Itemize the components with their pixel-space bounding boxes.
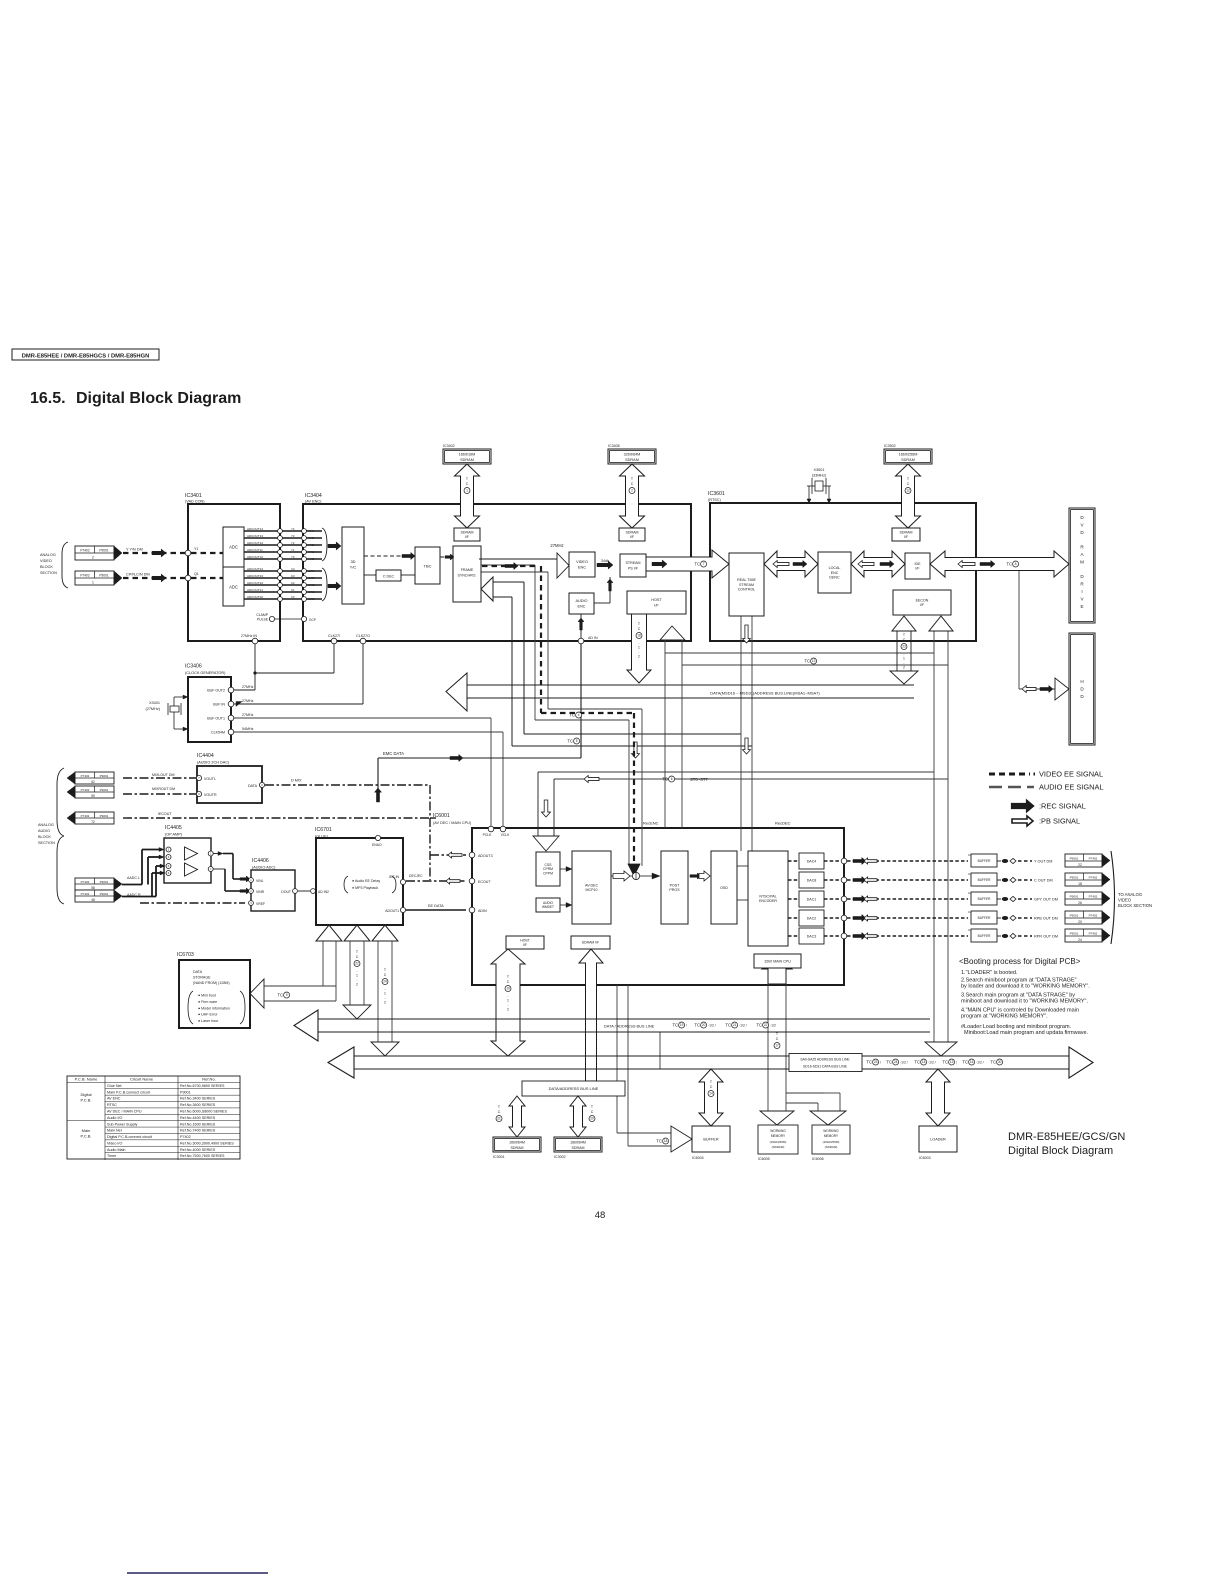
svg-text:18: 18 (1078, 882, 1082, 886)
svg-text:27MHz: 27MHz (242, 713, 254, 717)
svg-text:Y0: Y0 (291, 555, 295, 559)
svg-text:CPPM: CPPM (543, 872, 553, 876)
svg-text:ADCOUT24: ADCOUT24 (247, 567, 263, 571)
svg-text:C: C (710, 1085, 713, 1089)
svg-text:48: 48 (91, 898, 95, 902)
svg-text:DAC1: DAC1 (807, 897, 817, 901)
svg-text:IEC IN: IEC IN (389, 875, 400, 879)
svg-text:SYNCHRO.: SYNCHRO. (458, 574, 477, 578)
svg-text:GPY OUT DM: GPY OUT DM (1034, 897, 1058, 901)
svg-text:P7402: P7402 (81, 892, 90, 896)
svg-text:C: C (903, 638, 906, 642)
svg-text:OSD: OSD (720, 886, 728, 890)
svg-text:Q1: Q1 (194, 572, 199, 576)
svg-text:20: 20 (590, 1117, 594, 1121)
svg-text:FRAME: FRAME (461, 568, 474, 572)
svg-text:(SDRAM): (SDRAM) (825, 1145, 838, 1149)
svg-text:C/N1: C/N1 (308, 590, 315, 594)
svg-text:P9001: P9001 (180, 1090, 191, 1094)
svg-text:DECJEC: DECJEC (409, 874, 423, 878)
svg-text:IC6703: IC6703 (177, 952, 194, 958)
svg-text:CPRM: CPRM (543, 867, 553, 871)
svg-text:SD16-SD31 DATA BUS LINE: SD16-SD31 DATA BUS LINE (803, 1065, 848, 1069)
svg-text:Y/N0: Y/N0 (308, 557, 315, 561)
svg-text:ANALOG: ANALOG (38, 823, 54, 827)
svg-text:C/N4: C/N4 (308, 569, 315, 573)
svg-text:Y/N1: Y/N1 (308, 550, 315, 554)
svg-text:BUF IN: BUF IN (213, 702, 225, 706)
svg-text:DMR-E85HEE/GCS/GN: DMR-E85HEE/GCS/GN (1008, 1131, 1125, 1143)
svg-text:BLOCK: BLOCK (38, 835, 51, 839)
svg-text:15: 15 (922, 1060, 926, 1064)
svg-text:24: 24 (383, 980, 387, 984)
svg-text:IC3404: IC3404 (305, 493, 322, 499)
svg-text:CLK54M: CLK54M (211, 730, 225, 734)
svg-text:20: 20 (702, 1023, 706, 1027)
svg-text:-: - (384, 987, 385, 991)
svg-text:VIDEO: VIDEO (40, 559, 52, 563)
svg-text:24: 24 (894, 1060, 898, 1064)
svg-text:TC: TC (656, 1139, 662, 1144)
svg-text:DATA(MSD16 ~ MSD31)ADDRESS BUS: DATA(MSD16 ~ MSD31)ADDRESS BUS LINE(MSA1… (710, 691, 820, 696)
svg-text:22: 22 (1078, 863, 1082, 867)
svg-text:C: C (631, 482, 634, 486)
svg-text:5: 5 (576, 739, 578, 743)
svg-text:32bit MAIN CPU: 32bit MAIN CPU (764, 959, 791, 963)
svg-text:Ref.No.3600 SERIES: Ref.No.3600 SERIES (180, 1103, 216, 1107)
svg-text:D MIX: D MIX (291, 779, 302, 783)
svg-text:IDE: IDE (915, 562, 922, 566)
svg-text:7: 7 (703, 562, 705, 566)
svg-text:TO ANALOG: TO ANALOG (1118, 892, 1142, 897)
svg-text:22: 22 (764, 1023, 768, 1027)
svg-text:IC3601: IC3601 (708, 491, 725, 497)
svg-text:ADIN: ADIN (478, 909, 487, 913)
svg-text:P9001: P9001 (99, 548, 108, 552)
svg-text:-: - (356, 969, 357, 973)
svg-text:P9001: P9001 (1070, 856, 1079, 860)
svg-text:P.C.B.: P.C.B. (80, 1134, 91, 1139)
svg-text:TC: TC (569, 713, 575, 718)
svg-text:SDRAM: SDRAM (460, 458, 474, 462)
svg-text:6: 6 (671, 777, 673, 781)
svg-text:LOCAL: LOCAL (829, 566, 841, 570)
svg-text:TC: TC (886, 1060, 892, 1065)
svg-text:DAC8: DAC8 (807, 878, 817, 882)
svg-text:(AUDIO ADC): (AUDIO ADC) (252, 866, 276, 870)
svg-text:P9001: P9001 (1070, 931, 1079, 935)
svg-text:1: 1 (638, 646, 640, 650)
svg-text:AADC L: AADC L (127, 876, 140, 880)
svg-text:DENC: DENC (829, 575, 840, 579)
svg-text:BUFFER: BUFFER (978, 897, 991, 901)
svg-text:SDRAM: SDRAM (900, 530, 913, 534)
svg-text:Digital P.C.B.connect circuit: Digital P.C.B.connect circuit (107, 1135, 152, 1139)
svg-text:RecENC: RecENC (643, 821, 659, 826)
svg-text:VOUTR: VOUTR (204, 793, 217, 797)
svg-text:VIDEO EE SIGNAL: VIDEO EE SIGNAL (1039, 770, 1103, 779)
svg-text:CLAMP: CLAMP (256, 613, 268, 617)
svg-text:1."LOADER" is booted.: 1."LOADER" is booted. (961, 970, 1018, 976)
svg-text:ENCODER: ENCODER (759, 899, 777, 903)
svg-text:Y4: Y4 (291, 527, 295, 531)
svg-text:48: 48 (595, 1210, 606, 1221)
svg-text:PULSE: PULSE (257, 618, 269, 622)
svg-text:P9001: P9001 (100, 880, 109, 884)
svg-text:ADCOUT23: ADCOUT23 (247, 574, 263, 578)
svg-text:ADCOUT20: ADCOUT20 (247, 595, 263, 599)
svg-text:CONTROL: CONTROL (738, 587, 756, 591)
svg-text:Ref.No.4400 SERIES: Ref.No.4400 SERIES (180, 1116, 216, 1120)
svg-text:TC: TC (672, 1023, 678, 1028)
svg-text:SECTION: SECTION (38, 841, 55, 845)
svg-text:PCLK: PCLK (483, 833, 493, 837)
svg-text:(16bit/256M): (16bit/256M) (770, 1140, 787, 1144)
svg-text:TC: TC (694, 1023, 700, 1028)
svg-text:BUF OUT2: BUF OUT2 (207, 688, 225, 692)
svg-text:Digital Block Diagram: Digital Block Diagram (1008, 1145, 1113, 1157)
svg-text:-: - (384, 996, 385, 1000)
svg-text:ANALOG: ANALOG (40, 553, 56, 557)
svg-text:34db: 34db (601, 559, 609, 563)
svg-text:LOADER: LOADER (930, 1137, 946, 1141)
svg-text:X3401: X3401 (149, 701, 160, 705)
svg-text:(AV ENC): (AV ENC) (305, 500, 322, 504)
svg-text:IC3406: IC3406 (185, 664, 202, 670)
svg-text:DATA: DATA (248, 784, 258, 788)
svg-text:BUF OUT1: BUF OUT1 (207, 716, 225, 720)
svg-text:-1/2 /: -1/2 / (739, 1023, 747, 1027)
svg-text:C/N2: C/N2 (308, 583, 315, 587)
svg-text:C DEC: C DEC (383, 575, 395, 579)
svg-text:C4: C4 (291, 567, 295, 571)
svg-text:WMDET: WMDET (542, 905, 554, 909)
svg-text:(AUDIO 2CH DAC): (AUDIO 2CH DAC) (197, 761, 230, 765)
svg-text:BUFFER: BUFFER (978, 934, 991, 938)
svg-text:<Booting process for Digital P: <Booting process for Digital PCB> (959, 957, 1081, 966)
svg-text:ADCOUT13: ADCOUT13 (247, 534, 263, 538)
svg-text:● MP3 Playback: ● MP3 Playback (352, 886, 378, 890)
svg-text:WORKING: WORKING (823, 1129, 839, 1133)
svg-text:16bit/256M: 16bit/256M (899, 453, 918, 457)
svg-text:miniboot and download it to "W: miniboot and download it to "WORKING MEM… (961, 999, 1088, 1005)
svg-text:(AV DEC / MAIN CPU): (AV DEC / MAIN CPU) (433, 821, 472, 825)
svg-text:SA0-SA25 ADDRESS BUS LINE: SA0-SA25 ADDRESS BUS LINE (800, 1058, 850, 1062)
svg-text:P.C.B.: P.C.B. (80, 1098, 91, 1103)
svg-text:-: - (638, 650, 639, 654)
svg-text:P9001: P9001 (100, 892, 109, 896)
svg-text:Ref.No.6700,9800 SERIES: Ref.No.6700,9800 SERIES (180, 1084, 225, 1088)
svg-text:54MHz: 54MHz (242, 727, 254, 731)
svg-text:P9001: P9001 (100, 814, 109, 818)
svg-text:Y/N2: Y/N2 (308, 543, 315, 547)
svg-text:P7402: P7402 (1089, 856, 1098, 860)
svg-text:SDRAM I/F: SDRAM I/F (582, 941, 599, 945)
svg-text:1: 1 (92, 581, 94, 585)
svg-text:32bit/64M: 32bit/64M (624, 453, 641, 457)
svg-text:P7402: P7402 (81, 788, 90, 792)
svg-text:IC6005: IC6005 (758, 1157, 770, 1161)
svg-text:19: 19 (506, 987, 510, 991)
svg-text:NTSC/PAL: NTSC/PAL (759, 894, 776, 898)
svg-text:C/N3: C/N3 (308, 576, 315, 580)
svg-text:20: 20 (1078, 920, 1082, 924)
svg-text:Y1: Y1 (291, 548, 295, 552)
svg-text:STREAM: STREAM (626, 561, 641, 565)
svg-text:AD IN2: AD IN2 (318, 890, 329, 894)
svg-text:● UHF Error: ● UHF Error (198, 1013, 218, 1017)
svg-text:DAC4: DAC4 (807, 859, 817, 863)
svg-text:Ref.No.3400 SERIES: Ref.No.3400 SERIES (180, 1097, 216, 1101)
svg-text:23: 23 (902, 645, 906, 649)
svg-text:23: 23 (874, 1060, 878, 1064)
svg-text:(NAND FROM) (128M): (NAND FROM) (128M) (193, 981, 230, 985)
svg-text:Digital Block Diagram: Digital Block Diagram (76, 390, 241, 407)
svg-text:VINL: VINL (256, 879, 264, 883)
svg-text:P7402: P7402 (180, 1135, 191, 1139)
svg-text:AUDIO EE SIGNAL: AUDIO EE SIGNAL (1039, 783, 1103, 792)
svg-text:C1: C1 (291, 588, 295, 592)
svg-text:Ref.No.1600 SERIES: Ref.No.1600 SERIES (180, 1122, 216, 1126)
svg-text:16bit/64M: 16bit/64M (570, 1141, 586, 1145)
svg-text:ADCOUT10: ADCOUT10 (247, 555, 263, 559)
svg-text:IC4405: IC4405 (165, 825, 182, 831)
svg-text:REAL TIME: REAL TIME (737, 578, 756, 582)
svg-text:Sub Power Supply: Sub Power Supply (107, 1122, 137, 1126)
svg-text:18: 18 (637, 634, 641, 638)
svg-text:Circuit Name: Circuit Name (130, 1077, 154, 1082)
svg-text:DOUT: DOUT (281, 890, 291, 894)
svg-text:IC3002: IC3002 (554, 1155, 566, 1159)
svg-text:AV-DEC: AV-DEC (585, 883, 599, 887)
svg-text:(27MHz): (27MHz) (145, 707, 160, 711)
svg-text:2: 2 (356, 983, 358, 987)
svg-text:(GLUE): (GLUE) (315, 835, 329, 839)
svg-text:● Model information: ● Model information (198, 1006, 230, 1010)
svg-text:(SDRAM): (SDRAM) (772, 1145, 785, 1149)
svg-text:BUFFER: BUFFER (978, 916, 991, 920)
svg-text:-1/2 /: -1/2 / (900, 1060, 908, 1064)
svg-text:Audio Main: Audio Main (107, 1148, 125, 1152)
svg-text:-: - (638, 641, 639, 645)
svg-text:Ref.No.3000,3900,4900 SERIES: Ref.No.3000,3900,4900 SERIES (180, 1141, 234, 1145)
svg-text:DMR-E85HEE / DMR-E85HGCS / DMR: DMR-E85HEE / DMR-E85HGCS / DMR-E85HGN (22, 353, 150, 359)
svg-text:PS I/F: PS I/F (628, 567, 639, 571)
svg-text:I/F: I/F (654, 604, 659, 608)
svg-text:SDRAM: SDRAM (572, 1146, 585, 1150)
svg-text:C: C (466, 482, 469, 486)
svg-text:16bit/64M: 16bit/64M (509, 1141, 525, 1145)
svg-text:(OP AMP): (OP AMP) (165, 833, 183, 837)
svg-text:CLK27O: CLK27O (356, 634, 370, 638)
svg-text:P9001: P9001 (1070, 913, 1079, 917)
svg-text:MCP10: MCP10 (586, 888, 598, 892)
svg-text:by loader and download it to ": by loader and download it to "WORKING ME… (961, 984, 1090, 990)
svg-text:BUFFER: BUFFER (703, 1137, 718, 1141)
svg-text:-1/2: -1/2 (770, 1023, 776, 1027)
svg-text:P7402: P7402 (80, 548, 89, 552)
svg-text:ECOUT: ECOUT (478, 880, 491, 884)
svg-text:EMC DATA: EMC DATA (383, 751, 404, 756)
svg-text:Ref.No.: Ref.No. (202, 1077, 216, 1082)
svg-text:27MHz: 27MHz (242, 685, 254, 689)
svg-text:/: / (686, 1023, 687, 1027)
svg-text:● Firm ware: ● Firm ware (198, 1000, 217, 1004)
svg-text:IC6006: IC6006 (812, 1157, 824, 1161)
svg-text:ST0~ST7: ST0~ST7 (690, 777, 708, 782)
svg-text:EE DATA: EE DATA (428, 904, 444, 908)
svg-text:GCP: GCP (309, 618, 316, 622)
svg-text:C0: C0 (291, 595, 295, 599)
svg-text:17: 17 (775, 1044, 779, 1048)
svg-text:I/F: I/F (523, 943, 527, 947)
svg-text:TC: TC (694, 562, 700, 567)
svg-text:IC3001: IC3001 (493, 1155, 505, 1159)
svg-text:P7402: P7402 (81, 880, 90, 884)
svg-text:BUFFER: BUFFER (978, 878, 991, 882)
svg-text:PROS: PROS (669, 888, 680, 892)
svg-text:27MHz: 27MHz (550, 543, 563, 548)
svg-text:C: C (776, 1037, 779, 1041)
svg-text:VINR: VINR (256, 890, 265, 894)
svg-text:TC: TC (1006, 562, 1012, 567)
svg-text:DAC3: DAC3 (807, 934, 817, 938)
svg-text:16.5.: 16.5. (30, 390, 66, 407)
svg-text:IC4406: IC4406 (252, 858, 269, 864)
svg-text:VIDEO: VIDEO (1118, 898, 1132, 903)
svg-text:58: 58 (91, 886, 95, 890)
svg-text:IC3408: IC3408 (608, 444, 620, 448)
svg-text:ENC: ENC (831, 571, 839, 575)
svg-text:TC: TC (866, 1060, 872, 1065)
svg-text:C: C (507, 980, 510, 984)
svg-text:BUFFER: BUFFER (978, 859, 991, 863)
svg-text:/: / (880, 1060, 881, 1064)
svg-text:Ref.No.7500,7600 SERIES: Ref.No.7500,7600 SERIES (180, 1154, 225, 1158)
svg-text:P9001: P9001 (1070, 875, 1079, 879)
svg-text:TC: TC (277, 993, 283, 998)
svg-text:27MHz IN: 27MHz IN (241, 634, 257, 638)
svg-text:HOST: HOST (651, 598, 662, 602)
svg-text:ENC: ENC (577, 605, 585, 609)
svg-text:ADOUT3: ADOUT3 (478, 854, 493, 858)
svg-text:E: E (1080, 604, 1083, 609)
svg-text:TC: TC (962, 1060, 968, 1065)
svg-text:(16bit/256M): (16bit/256M) (823, 1140, 840, 1144)
svg-text:STREAM: STREAM (739, 583, 754, 587)
svg-text:SDRAM: SDRAM (511, 1146, 524, 1150)
svg-text:Video I/O: Video I/O (107, 1141, 122, 1145)
svg-text:C: C (591, 1110, 594, 1114)
svg-text:MEMORY: MEMORY (824, 1134, 839, 1138)
svg-text:22: 22 (355, 962, 359, 966)
svg-text:2: 2 (384, 1001, 386, 1005)
svg-text:IC4404: IC4404 (197, 753, 214, 759)
svg-text:(CLOCK GENERATOR): (CLOCK GENERATOR) (185, 671, 226, 675)
svg-text:P7402: P7402 (81, 814, 90, 818)
svg-text:program at "WORKING MEMORY".: program at "WORKING MEMORY". (961, 1014, 1048, 1020)
svg-text:Y/N3: Y/N3 (308, 536, 315, 540)
svg-text:1: 1 (507, 999, 509, 1003)
svg-text:ADC: ADC (229, 585, 238, 590)
svg-text:C: C (384, 973, 387, 977)
svg-text:SECTION: SECTION (40, 571, 57, 575)
svg-text:TC: TC (756, 1023, 762, 1028)
svg-text:Ref.No.4000 SERIES: Ref.No.4000 SERIES (180, 1148, 216, 1152)
svg-text:16bit/16M: 16bit/16M (459, 453, 476, 457)
svg-text:X3501: X3501 (814, 468, 825, 472)
svg-text:● Audio EE Delay: ● Audio EE Delay (352, 879, 380, 883)
svg-text:P.C.B. Name: P.C.B. Name (75, 1077, 99, 1082)
svg-text:CP/N,C/N DM: CP/N,C/N DM (126, 573, 150, 577)
svg-text:ENC: ENC (578, 566, 586, 570)
svg-text:Y1: Y1 (194, 547, 198, 551)
svg-text:-: - (507, 1003, 508, 1007)
svg-text:TC: TC (804, 659, 810, 664)
svg-text:-1/2 /: -1/2 / (928, 1060, 936, 1064)
svg-text:2: 2 (903, 666, 905, 670)
svg-text:IC3402: IC3402 (443, 444, 455, 448)
svg-text:SDRAM: SDRAM (626, 530, 639, 534)
svg-text:DAC2: DAC2 (807, 916, 817, 920)
svg-text:C3: C3 (291, 574, 295, 578)
svg-text:TC: TC (990, 1060, 996, 1065)
svg-text:● Laser hour: ● Laser hour (198, 1019, 219, 1023)
svg-text:18: 18 (664, 1139, 668, 1143)
svg-text:(33MHz): (33MHz) (812, 474, 827, 478)
svg-text:ENAO: ENAO (372, 843, 382, 847)
svg-text:1: 1 (466, 489, 468, 493)
svg-text:C2: C2 (291, 581, 295, 585)
svg-text:POST: POST (670, 883, 681, 887)
svg-text:SDRAM: SDRAM (625, 458, 639, 462)
svg-text:62: 62 (91, 780, 95, 784)
svg-text:IC6003: IC6003 (919, 1156, 931, 1160)
svg-text:-1/2 /: -1/2 / (976, 1060, 984, 1064)
svg-text:● Mini boot: ● Mini boot (198, 994, 216, 998)
svg-text:IC6701: IC6701 (315, 827, 332, 833)
svg-text:Timer: Timer (107, 1154, 117, 1158)
svg-text::PB SIGNAL: :PB SIGNAL (1039, 817, 1080, 826)
svg-text:21: 21 (497, 1117, 501, 1121)
svg-text:AV ENC: AV ENC (107, 1097, 121, 1101)
svg-text:14: 14 (709, 1092, 713, 1096)
svg-text:-1/2 /: -1/2 / (708, 1023, 716, 1027)
svg-text:DATA / ADDRESS BUS LINE: DATA / ADDRESS BUS LINE (604, 1024, 655, 1029)
svg-text:-: - (903, 652, 904, 656)
svg-text:Glue Net: Glue Net (107, 1084, 122, 1088)
svg-text:ADCOUT14: ADCOUT14 (247, 527, 263, 531)
svg-text:RPB OUT DM: RPB OUT DM (1034, 916, 1058, 920)
svg-text:DATA/ADDRESS BUS LINE: DATA/ADDRESS BUS LINE (549, 1086, 599, 1091)
svg-text:Ref.No.7400 SERIES: Ref.No.7400 SERIES (180, 1129, 216, 1133)
svg-text:13: 13 (812, 659, 816, 663)
svg-text:ADCOUT21: ADCOUT21 (247, 588, 263, 592)
svg-text:16: 16 (970, 1060, 974, 1064)
svg-text:RecDEC: RecDEC (775, 821, 791, 826)
svg-text:IC3502: IC3502 (884, 444, 896, 448)
svg-text:C: C (638, 627, 641, 631)
svg-text:AD IN: AD IN (588, 636, 598, 640)
svg-text:VOUTL: VOUTL (204, 777, 216, 781)
svg-text:Y/C: Y/C (350, 565, 357, 570)
svg-text:ADCOUT12: ADCOUT12 (247, 541, 263, 545)
svg-text:MIXROUT DM: MIXROUT DM (152, 787, 175, 791)
svg-text:AV DEC / MAIN CPU: AV DEC / MAIN CPU (107, 1110, 142, 1114)
svg-text:C: C (498, 1110, 501, 1114)
svg-text:59: 59 (91, 794, 95, 798)
svg-text:1: 1 (384, 992, 386, 996)
